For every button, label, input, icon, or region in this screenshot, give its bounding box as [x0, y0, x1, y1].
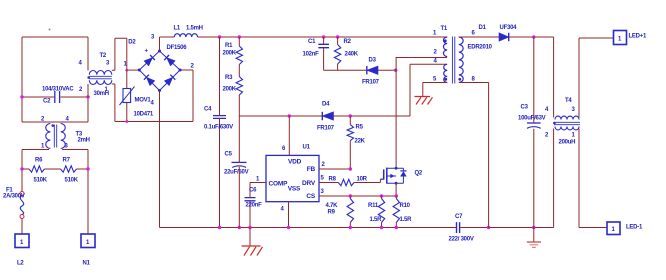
svg-text:R11: R11 [368, 203, 379, 209]
node R5 top junction [349, 114, 352, 117]
node C4 bottom junction [218, 226, 221, 229]
wire aux pin4 riser [410, 64, 447, 116]
svg-text:2A/300V: 2A/300V [3, 194, 25, 200]
svg-text:2mH: 2mH [78, 138, 90, 144]
capacitor C5 [232, 161, 247, 163]
transformer T3 [46, 124, 51, 149]
wire primary ground rail [160, 227, 457, 229]
resistor R5 [349, 116, 351, 125]
svg-text:100uF/63V: 100uF/63V [518, 115, 546, 121]
node C3 bottom junction [532, 226, 535, 229]
svg-text:200K: 200K [223, 51, 237, 57]
svg-text:Q2: Q2 [415, 171, 423, 177]
node C3 top junction [532, 35, 535, 38]
wire T2 pin3 jog [112, 38, 127, 70]
node R9 top junction [349, 194, 352, 197]
wire U1 VSS stub [288, 202, 290, 228]
node R7 right junction [86, 167, 89, 170]
svg-text:4: 4 [151, 101, 155, 107]
wire T4 pin2 drop [553, 129, 555, 228]
svg-text:22K: 22K [355, 139, 366, 145]
capacitor C4 [213, 116, 226, 119]
svg-text:222/ 300V: 222/ 300V [449, 236, 474, 242]
wire T1 pin5 to gnd [423, 83, 447, 97]
diode D1 [499, 33, 509, 41]
varistor MOV1 [126, 70, 128, 121]
node C2 row wire [22, 96, 88, 98]
port LED+1 [614, 31, 627, 45]
svg-text:2: 2 [545, 133, 549, 139]
svg-text:C1: C1 [308, 39, 316, 45]
diode bridge bottom-left [146, 77, 155, 86]
diode bridge top-right [167, 58, 176, 66]
diode bridge bottom-right [164, 77, 173, 86]
svg-text:4: 4 [281, 207, 285, 213]
node C2-left junction [20, 95, 23, 98]
svg-text:0.1uF/630V: 0.1uF/630V [204, 125, 233, 131]
node bridge vertices [158, 50, 161, 53]
wire R6-R7 link [45, 168, 61, 170]
wire T2 pin1 down [112, 84, 115, 122]
svg-text:4.7K: 4.7K [326, 203, 339, 209]
svg-text:1: 1 [433, 31, 437, 37]
svg-text:3: 3 [106, 61, 110, 67]
wire T1 pin6 out [459, 36, 499, 38]
svg-text:3: 3 [321, 189, 325, 195]
svg-text:FR107: FR107 [362, 80, 380, 86]
svg-text:4: 4 [79, 61, 83, 67]
svg-text:DRV: DRV [302, 180, 316, 187]
wire R8 to gate [354, 179, 380, 182]
svg-text:1: 1 [41, 144, 45, 150]
wire to T1 pin2 [396, 57, 447, 59]
svg-text:MOV1: MOV1 [135, 98, 152, 104]
diode bridge top-left [144, 58, 153, 66]
svg-text:10R: 10R [357, 177, 368, 183]
capacitor C1 [323, 37, 325, 70]
svg-text:R3: R3 [225, 75, 233, 81]
svg-text:C5: C5 [225, 151, 233, 157]
svg-text:C4: C4 [204, 107, 212, 113]
node R2 top junction [336, 35, 339, 38]
svg-text:R6: R6 [35, 158, 43, 164]
port N1 [81, 234, 95, 248]
node R11 bottom junction [380, 226, 383, 229]
diode bridge D2 outline [139, 51, 180, 91]
node VDD pin junction [288, 114, 291, 117]
svg-text:VDD: VDD [288, 159, 302, 166]
svg-text:200uH: 200uH [559, 140, 576, 146]
svg-text:EDR2010: EDR2010 [468, 45, 493, 51]
svg-text:1: 1 [612, 227, 616, 233]
wire secondary return rail [460, 227, 554, 229]
svg-text:102nF: 102nF [303, 52, 320, 58]
node C4 top junction [218, 35, 221, 38]
inductor T4 [555, 116, 579, 119]
svg-text:T4: T4 [565, 98, 572, 104]
capacitor C7 [457, 222, 460, 233]
svg-text:R8: R8 [329, 177, 337, 183]
wire C4 vertical [219, 37, 221, 228]
node C2-right junction [86, 95, 89, 98]
svg-text:+: + [145, 49, 149, 55]
wire D1 out [509, 36, 554, 38]
svg-text:4: 4 [545, 107, 549, 113]
svg-text:T2: T2 [100, 53, 107, 59]
node R11 top junction [380, 194, 383, 197]
svg-text:220nF: 220nF [246, 203, 263, 209]
svg-text:2: 2 [322, 162, 326, 168]
wire C5 vertical [238, 116, 240, 228]
node R6 left junction [20, 167, 23, 170]
svg-text:COMP: COMP [269, 180, 289, 187]
svg-text:C7: C7 [455, 214, 463, 220]
capacitor C2 [55, 91, 60, 103]
svg-text:R2: R2 [344, 39, 352, 45]
svg-text:D3: D3 [369, 58, 377, 64]
svg-text:1: 1 [256, 177, 260, 183]
svg-text:FR107: FR107 [317, 126, 335, 132]
ground aux [415, 97, 433, 105]
svg-text:5: 5 [321, 176, 325, 182]
wire top rail [160, 36, 448, 38]
svg-text:CS: CS [306, 193, 315, 200]
svg-text:104/310VAC: 104/310VAC [42, 87, 74, 93]
node R1 top junction [238, 35, 241, 38]
inductor L1 [174, 34, 197, 37]
wire bridge minus down [159, 91, 161, 228]
node FB-R5 junction [349, 167, 352, 170]
svg-text:C2: C2 [43, 99, 51, 105]
svg-text:R7: R7 [63, 158, 71, 164]
wire D2-net to bridge [127, 69, 140, 71]
wire left rail to fuse [21, 150, 23, 192]
svg-text:1.5R: 1.5R [370, 217, 383, 223]
resistor R3 [236, 77, 242, 96]
node C1 top junction [322, 35, 325, 38]
svg-text:30mH: 30mH [94, 91, 109, 97]
wire bridge pin2 run [180, 70, 193, 122]
wire fuse to L2 [21, 219, 23, 235]
wire snubber row [324, 69, 396, 71]
svg-text:R1: R1 [225, 43, 233, 49]
ground secondary [533, 228, 535, 242]
svg-text:U1: U1 [303, 145, 311, 151]
fuse F1 [20, 192, 24, 196]
resistor R9 [349, 196, 351, 199]
svg-text:C3: C3 [521, 105, 529, 111]
transformer T1 [443, 37, 447, 57]
resistor R10 [395, 196, 397, 199]
op-amp U1 box [266, 155, 319, 201]
svg-text:D4: D4 [322, 102, 330, 108]
resistor R1 [238, 37, 240, 46]
svg-text:1.5R: 1.5R [400, 217, 413, 223]
svg-text:4: 4 [434, 59, 438, 65]
wire Q2 source down [395, 183, 397, 196]
svg-text:510K: 510K [65, 178, 79, 184]
svg-text:LED-1: LED-1 [626, 225, 643, 231]
transistor Q2 [383, 169, 385, 179]
svg-text:L2: L2 [17, 261, 24, 267]
wire T3 lower row [22, 149, 88, 151]
wire U1 CS line [319, 195, 396, 197]
resistor R2 [337, 37, 339, 70]
svg-text:T1: T1 [441, 26, 448, 32]
svg-text:FB: FB [307, 166, 316, 173]
svg-text:VSS: VSS [288, 186, 301, 193]
node T1 pin8 bottom junction [487, 226, 490, 229]
svg-text:D2: D2 [128, 40, 136, 46]
node Q2 source junction [395, 194, 398, 197]
wire T4 pin3 riser [579, 38, 614, 118]
node C6 bottom junction [248, 226, 251, 229]
svg-text:3: 3 [572, 107, 576, 113]
resistor R8 [338, 179, 354, 185]
diode D4 [322, 112, 333, 120]
node MOV tap junction [125, 69, 128, 72]
resistor R11 [381, 196, 383, 199]
wire T2 pin2 down [87, 84, 89, 97]
wire U1 VDD stub [288, 116, 290, 155]
wire T4 pin4 drop [553, 37, 555, 118]
node R10 bottom junction [395, 226, 398, 229]
wire U1 COMP stub [250, 183, 266, 198]
svg-text:DF1506: DF1506 [167, 45, 188, 51]
svg-text:6: 6 [282, 146, 286, 152]
node D3 junction [394, 69, 397, 72]
resistor R6 [22, 168, 29, 170]
wire input box outline [22, 37, 88, 122]
port LED-1 [607, 222, 620, 235]
svg-text:1: 1 [618, 37, 622, 43]
ground primary [249, 228, 251, 247]
svg-text:C6: C6 [249, 188, 257, 194]
wire U1 DRV stub [319, 182, 338, 184]
svg-text:R5: R5 [356, 125, 364, 131]
wire AC2 bottom run [115, 121, 193, 123]
svg-text:R10: R10 [400, 203, 411, 209]
transformer T2 [89, 70, 112, 74]
svg-text:2: 2 [79, 87, 83, 93]
svg-text:N1: N1 [83, 261, 91, 267]
svg-text:240K: 240K [345, 52, 359, 58]
wire T1 pin8 out [459, 83, 489, 228]
stray mark [49, 29, 51, 31]
port L2 [15, 234, 29, 248]
node C5 bottom junction [238, 226, 241, 229]
wire T2 pin4 up [87, 37, 89, 71]
svg-text:3: 3 [65, 144, 69, 150]
svg-text:1: 1 [86, 240, 90, 246]
svg-text:10D471: 10D471 [134, 112, 154, 118]
node VSS bottom junction [287, 226, 290, 229]
capacitor C3 [527, 122, 541, 124]
wire right rail to N1 [87, 150, 89, 235]
wire bridge plus up [159, 37, 161, 51]
svg-text:LED+1: LED+1 [629, 34, 648, 40]
wire C3 vertical [533, 37, 535, 228]
node R9 bottom junction [349, 226, 352, 229]
svg-text:8: 8 [472, 77, 476, 83]
svg-text:L1: L1 [174, 26, 181, 32]
svg-text:2: 2 [434, 50, 438, 56]
diode D3 [367, 66, 378, 74]
wire VDD line right [334, 115, 411, 117]
resistor R7 [61, 166, 77, 172]
svg-text:1.5mH: 1.5mH [186, 26, 203, 32]
svg-text:1: 1 [572, 133, 576, 139]
svg-text:200K: 200K [223, 87, 237, 93]
svg-text:R9: R9 [328, 210, 336, 216]
svg-text:2: 2 [191, 64, 195, 70]
capacitor C6 [245, 198, 256, 201]
svg-text:1: 1 [20, 240, 24, 246]
svg-text:UF304: UF304 [500, 25, 518, 31]
svg-text:6: 6 [472, 31, 476, 37]
node MOV bottom junction [125, 120, 128, 123]
svg-text:510K: 510K [34, 178, 48, 184]
wire T4 pin1 out [579, 129, 607, 228]
wire U1 FB stub [319, 168, 350, 170]
svg-text:3: 3 [151, 35, 155, 41]
svg-text:22uF/50V: 22uF/50V [224, 170, 249, 176]
wire switch-node vertical [395, 58, 397, 169]
wire R1-R3 link [238, 65, 240, 77]
svg-text:5: 5 [433, 77, 437, 83]
svg-text:D1: D1 [479, 25, 487, 31]
